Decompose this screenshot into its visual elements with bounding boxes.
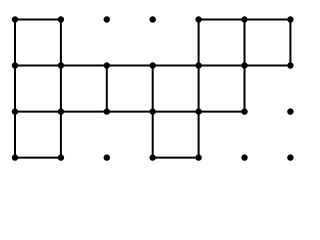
node (6,2) xyxy=(287,108,293,114)
node (6,0) xyxy=(287,16,293,22)
wire column-0 vertical (0,0)-(0,3) xyxy=(14,20,16,158)
node (5,1) xyxy=(241,62,247,68)
node (3,1) xyxy=(150,62,156,68)
node (5,2) xyxy=(241,108,247,114)
wire column-1 vertical (1,0)-(1,3) xyxy=(60,20,62,158)
node (6,3) xyxy=(287,154,293,160)
wire column-6 vertical (6,0)-(6,1) xyxy=(289,20,291,66)
wire top edge of square A (0,0)-(1,0) xyxy=(15,19,61,21)
node (1,3) xyxy=(58,154,64,160)
wire row-1 horizontal (0,1)-(6,1) xyxy=(15,65,290,67)
node (4,1) xyxy=(195,62,201,68)
wire row-2 horizontal (0,2)-(5,2) xyxy=(15,111,245,113)
node (2,0) xyxy=(104,16,110,22)
node (4,0) xyxy=(195,16,201,22)
node (2,2) xyxy=(104,108,110,114)
wire bottom edge of square I (3,3)-(4,3) xyxy=(153,157,199,159)
wire column-2 vertical (2,1)-(2,2) xyxy=(106,66,108,112)
node (0,2) xyxy=(12,108,18,114)
wire column-4 vertical (4,0)-(4,3) xyxy=(198,20,200,158)
node (2,3) xyxy=(104,154,110,160)
node (1,2) xyxy=(58,108,64,114)
node (3,0) xyxy=(150,16,156,22)
node (3,2) xyxy=(150,108,156,114)
node (5,0) xyxy=(241,16,247,22)
wire column-3 vertical (3,1)-(3,3) xyxy=(152,66,154,158)
wire column-5 vertical (5,0)-(5,2) xyxy=(244,20,246,112)
wire top edge of squares F,G (4,0)-(6,0) xyxy=(199,19,291,21)
node (1,0) xyxy=(58,16,64,22)
node (4,3) xyxy=(195,154,201,160)
node (6,1) xyxy=(287,62,293,68)
node (0,3) xyxy=(12,154,18,160)
node (1,1) xyxy=(58,62,64,68)
node (2,1) xyxy=(104,62,110,68)
node (4,2) xyxy=(195,108,201,114)
node (3,3) xyxy=(150,154,156,160)
node (0,0) xyxy=(12,16,18,22)
node (5,3) xyxy=(241,154,247,160)
node (0,1) xyxy=(12,62,18,68)
wire bottom edge of square H (0,3)-(1,3) xyxy=(15,157,61,159)
